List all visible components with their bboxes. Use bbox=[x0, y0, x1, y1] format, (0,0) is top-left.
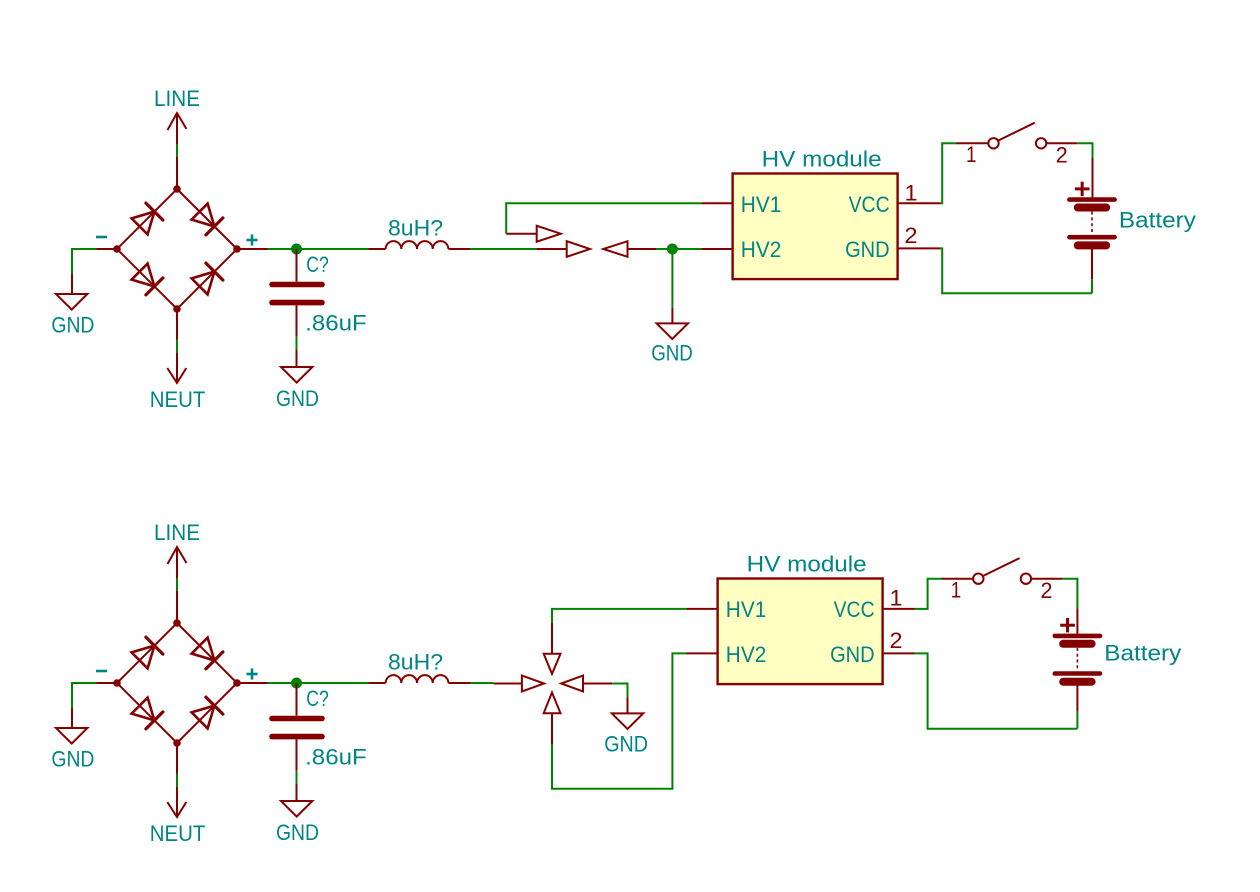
svg-text:C?: C? bbox=[306, 686, 328, 711]
plus sign (bottom) bbox=[246, 668, 257, 679]
ground symbol under capacitor (bottom) bbox=[276, 801, 319, 845]
ground symbol left (bottom) bbox=[51, 728, 94, 771]
svg-text:GND: GND bbox=[604, 731, 648, 756]
bridge plus pin wire (bottom) bbox=[237, 682, 268, 684]
upper electrode wire from HV1 (top) bbox=[506, 203, 701, 233]
wire minus to GND (bottom) bbox=[72, 683, 97, 708]
ground symbol middle (bottom) bbox=[604, 713, 648, 756]
GND stub wire (top middle) bbox=[671, 308, 673, 324]
pin wire GND (top) bbox=[898, 247, 940, 249]
GND stub wire (bottom middle) bbox=[627, 697, 629, 713]
pin wire VCC (bottom) bbox=[883, 608, 915, 610]
HV module box (bottom) bbox=[718, 579, 883, 685]
diode D4 (top bridge bottom-right) bbox=[192, 263, 223, 294]
wire switch to battery (bottom) bbox=[1062, 579, 1077, 609]
pin wire HV2 (top) bbox=[701, 248, 732, 250]
svg-text:HV module: HV module bbox=[747, 552, 867, 577]
bridge top pin wire (top) bbox=[176, 157, 178, 189]
ground symbol middle (top) bbox=[651, 323, 693, 365]
minus sign (top) bbox=[96, 236, 107, 239]
svg-text:2: 2 bbox=[890, 628, 903, 653]
wire junction to inductor (top) bbox=[301, 248, 369, 250]
svg-text:GND: GND bbox=[51, 746, 94, 771]
battery top pin wire (bottom) bbox=[1076, 608, 1078, 634]
wire spark gap to HV2 (top) bbox=[656, 248, 701, 250]
LINE connector arrow (top) bbox=[168, 113, 187, 144]
diode D3 (top bridge left-bottom) bbox=[132, 264, 163, 295]
svg-text:Battery: Battery bbox=[1119, 208, 1196, 233]
wire inductor to spark gap (top) bbox=[470, 248, 536, 250]
svg-text:LINE: LINE bbox=[154, 520, 200, 545]
switch stub left (bottom) bbox=[942, 578, 974, 580]
bridge plus pin wire (top) bbox=[237, 248, 268, 250]
NEUT connector arrow (top) bbox=[167, 353, 186, 383]
battery bottom pin wire (top) bbox=[1091, 247, 1093, 279]
switch stub right (bottom) bbox=[1031, 578, 1062, 580]
wire battery to loop (bottom) bbox=[1076, 712, 1078, 729]
wire GND pin to loop (bottom) bbox=[915, 653, 1078, 728]
bridge top pin wire (bottom) bbox=[176, 591, 178, 623]
svg-text:HV2: HV2 bbox=[741, 237, 782, 262]
diode D2 (bottom bridge top-right) bbox=[192, 638, 223, 669]
GND stub wire (bottom) bbox=[71, 708, 73, 729]
spark gap electrode left (bottom) bbox=[494, 676, 544, 692]
capacitor C? (bottom) bbox=[272, 683, 322, 771]
svg-text:8uH?: 8uH? bbox=[388, 216, 443, 241]
switch stub right (top) bbox=[1046, 142, 1077, 144]
bridge rectifier diamond (top) bbox=[117, 189, 237, 309]
wire plus to junction (top) bbox=[268, 248, 302, 250]
bridge node dots (bottom) bbox=[113, 619, 241, 747]
wire LINE to bridge (bottom) bbox=[176, 578, 178, 591]
svg-text:HV module: HV module bbox=[762, 147, 882, 172]
wire spark gap to GND (bottom) bbox=[612, 684, 627, 698]
pin wire VCC (top) bbox=[898, 202, 940, 204]
wire VCC to switch (bottom) bbox=[915, 579, 942, 609]
svg-text:Battery: Battery bbox=[1104, 640, 1181, 665]
wire GND pin to loop (top) bbox=[940, 248, 1092, 293]
svg-text:GND: GND bbox=[276, 820, 319, 845]
LINE connector arrow (bottom) bbox=[168, 547, 187, 578]
battery BT? (top) bbox=[1069, 200, 1114, 246]
svg-text:8uH?: 8uH? bbox=[388, 650, 443, 675]
pin wire HV1 (top) bbox=[701, 202, 732, 204]
plus sign (top) bbox=[246, 234, 257, 245]
wire junction down to GND (top) bbox=[671, 249, 673, 308]
inductor L? 8uH (top) bbox=[369, 241, 471, 249]
GND stub under capacitor (top) bbox=[296, 350, 298, 367]
wire capacitor to GND (top) bbox=[296, 337, 298, 350]
svg-text:.86uF: .86uF bbox=[305, 745, 367, 770]
inductor L? 8uH (bottom) bbox=[369, 675, 471, 683]
svg-text:1: 1 bbox=[905, 180, 918, 205]
svg-text:HV1: HV1 bbox=[726, 597, 767, 622]
bridge bottom pin wire (top) bbox=[176, 309, 178, 340]
svg-text:2: 2 bbox=[1056, 143, 1068, 168]
svg-text:GND: GND bbox=[651, 341, 693, 366]
diode D1 (top bridge left-top) bbox=[132, 203, 163, 234]
bridge bottom pin wire (bottom) bbox=[176, 743, 178, 774]
switch stub left (top) bbox=[957, 142, 989, 144]
battery plus sign (top) bbox=[1075, 182, 1090, 196]
wire capacitor to GND (bottom) bbox=[296, 771, 298, 784]
capacitor C? (top) bbox=[272, 249, 322, 337]
ground symbol under capacitor (top) bbox=[276, 367, 319, 411]
diode D3 (bottom bridge left-bottom) bbox=[132, 698, 163, 729]
svg-text:GND: GND bbox=[276, 386, 319, 411]
svg-text:1: 1 bbox=[951, 577, 962, 602]
wire junction to inductor (bottom) bbox=[301, 682, 369, 684]
bridge node dots (top) bbox=[113, 185, 241, 313]
diode D4 (bottom bridge bottom-right) bbox=[192, 697, 223, 728]
bridge minus pin wire (top) bbox=[97, 248, 118, 250]
svg-text:VCC: VCC bbox=[834, 597, 875, 622]
ground symbol left (top) bbox=[51, 294, 94, 337]
svg-text:1: 1 bbox=[966, 142, 977, 167]
svg-text:2: 2 bbox=[1041, 578, 1053, 603]
svg-text:C?: C? bbox=[306, 252, 328, 277]
junction at HV2 GND (top) bbox=[667, 244, 678, 255]
wire plus to junction (bottom) bbox=[268, 682, 302, 684]
spark gap electrode bottom (bottom) bbox=[544, 692, 561, 744]
bridge minus pin wire (bottom) bbox=[97, 682, 118, 684]
svg-text:GND: GND bbox=[51, 312, 94, 337]
spark gap upper electrode (top) bbox=[506, 226, 561, 242]
wire VCC to switch (top) bbox=[940, 143, 957, 203]
wire LINE to bridge (top) bbox=[176, 144, 178, 157]
switch SW? (bottom) bbox=[973, 558, 1031, 584]
pin wire HV2 (bottom) bbox=[686, 652, 717, 654]
svg-text:2: 2 bbox=[905, 223, 918, 248]
NEUT connector arrow (bottom) bbox=[167, 787, 186, 817]
wire battery to loop (top) bbox=[1091, 279, 1093, 293]
spark gap electrode right (bottom) bbox=[561, 676, 612, 692]
battery BT? (bottom) bbox=[1055, 636, 1100, 682]
svg-text:HV1: HV1 bbox=[741, 192, 782, 217]
wire switch to battery (top) bbox=[1077, 143, 1092, 158]
wire HV1 to top electrode (bottom) bbox=[552, 609, 686, 623]
spark gap electrode left-pointing (top) bbox=[603, 241, 658, 257]
svg-text:1: 1 bbox=[890, 585, 903, 610]
diode D1 (bottom bridge left-top) bbox=[132, 637, 163, 668]
switch SW? (top) bbox=[988, 123, 1046, 149]
minus sign (bottom) bbox=[96, 670, 107, 673]
junction at capacitor (top) bbox=[291, 244, 302, 255]
svg-text:NEUT: NEUT bbox=[150, 387, 206, 412]
svg-text:GND: GND bbox=[845, 237, 890, 262]
wire bridge to NEUT (top) bbox=[176, 340, 178, 354]
battery bottom pin wire (bottom) bbox=[1076, 684, 1078, 712]
wire bottom electrode to HV2 (bottom) bbox=[552, 653, 686, 788]
svg-text:VCC: VCC bbox=[849, 192, 890, 217]
GND stub wire (top) bbox=[71, 274, 73, 295]
svg-text:.86uF: .86uF bbox=[305, 311, 367, 336]
HV module box (top) bbox=[733, 174, 898, 280]
diode D2 (top bridge top-right) bbox=[192, 204, 223, 235]
svg-text:GND: GND bbox=[830, 642, 875, 667]
svg-text:HV2: HV2 bbox=[726, 642, 767, 667]
svg-text:LINE: LINE bbox=[154, 86, 200, 111]
spark gap electrode top (bottom) bbox=[544, 623, 561, 674]
spark gap electrode right-pointing (top) bbox=[536, 241, 590, 257]
bridge rectifier diamond (bottom) bbox=[117, 623, 237, 743]
wire inductor to spark gap (bottom) bbox=[470, 682, 494, 684]
pin wire GND (bottom) bbox=[883, 652, 915, 654]
pin wire HV1 (bottom) bbox=[686, 608, 717, 610]
svg-text:NEUT: NEUT bbox=[150, 821, 206, 846]
wire minus to GND (top) bbox=[72, 249, 97, 274]
battery plus sign (bottom) bbox=[1060, 618, 1075, 632]
GND stub under capacitor (bottom) bbox=[296, 784, 298, 801]
junction at capacitor (bottom) bbox=[291, 678, 302, 689]
wire bridge to NEUT (bottom) bbox=[176, 774, 178, 788]
battery top pin wire (top) bbox=[1092, 158, 1094, 197]
